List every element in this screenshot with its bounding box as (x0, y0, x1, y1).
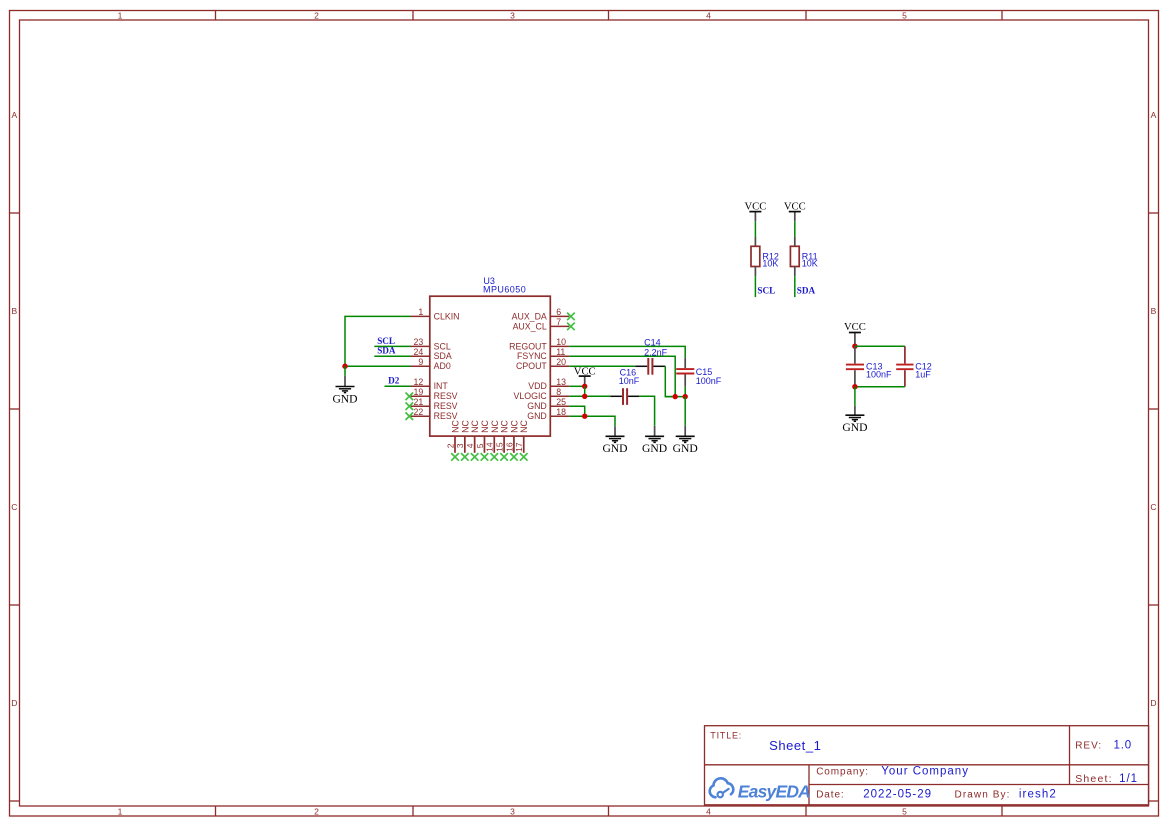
svg-text:10nF: 10nF (619, 376, 640, 386)
no-connect flag pin 6 (567, 313, 575, 321)
svg-text:1: 1 (418, 307, 423, 317)
resistor R12 10K (751, 237, 779, 277)
svg-text:2: 2 (314, 807, 319, 817)
svg-text:3: 3 (510, 11, 515, 21)
U3 pin 7 (AUX_CL) right (513, 317, 570, 331)
junction C15/GND (683, 394, 688, 399)
no-connect flag pin 16 (510, 453, 518, 461)
svg-text:NC: NC (451, 420, 461, 433)
svg-text:10K: 10K (762, 259, 778, 269)
U3 pin 9 (AD0) left (411, 357, 451, 371)
capacitor C15 100nF (676, 358, 722, 387)
svg-text:REGOUT: REGOUT (509, 341, 547, 351)
IC U3 MPU6050 (411, 276, 570, 461)
svg-text:B: B (11, 306, 17, 316)
no-connect flag pin 15 (500, 453, 508, 461)
svg-text:SDA: SDA (377, 346, 396, 356)
wire R12 to SCL (754, 276, 756, 297)
svg-text:19: 19 (414, 387, 424, 397)
svg-text:MPU6050: MPU6050 (483, 284, 526, 294)
svg-text:5: 5 (902, 11, 907, 21)
svg-text:Your Company: Your Company (881, 766, 969, 778)
svg-text:Sheet:: Sheet: (1075, 773, 1113, 785)
power VCC (above R11) (784, 201, 806, 221)
svg-text:2: 2 (445, 443, 455, 448)
wire SDA net (374, 355, 410, 357)
svg-text:1: 1 (118, 11, 123, 21)
svg-text:5: 5 (902, 807, 907, 817)
svg-text:10K: 10K (802, 259, 818, 269)
U3 pin 3 (NC) bottom (455, 420, 470, 453)
wire C16 to ground corner (639, 396, 655, 426)
svg-text:17: 17 (514, 442, 524, 452)
svg-text:1: 1 (118, 807, 123, 817)
wire C12 bottom to C13 bottom (855, 386, 905, 388)
svg-text:12: 12 (414, 377, 424, 387)
svg-text:NC: NC (490, 420, 500, 433)
wire AD0 net (pin 9) (345, 365, 411, 367)
svg-text:8: 8 (556, 387, 561, 397)
svg-text:7: 7 (556, 317, 561, 327)
wire VDD to VLOGIC (584, 386, 586, 396)
U3 pin 4 (NC) bottom (465, 420, 480, 453)
wire C13 bottom to ground (854, 387, 856, 406)
wire CLKIN net (pin 1 to corner) (345, 316, 411, 366)
power VCC (above VDD) (574, 367, 596, 387)
U3 pin 5 (NC) bottom (475, 420, 490, 453)
svg-text:9: 9 (418, 357, 423, 367)
wire FSYNC net (pin 11) (569, 356, 675, 396)
svg-text:GND: GND (673, 442, 698, 455)
title block (705, 726, 1149, 805)
wire junction row (665, 396, 685, 398)
wire junction to ground (right) (684, 397, 686, 426)
svg-text:NC: NC (460, 420, 470, 433)
svg-text:RESV: RESV (434, 411, 458, 421)
U3 pin 14 (NC) bottom (485, 420, 500, 453)
svg-text:VCC: VCC (745, 201, 767, 212)
svg-text:NC: NC (480, 420, 490, 433)
svg-text:A: A (1151, 110, 1157, 120)
junction VDD/VCC (582, 384, 587, 389)
svg-text:16: 16 (504, 442, 514, 452)
svg-text:SCL: SCL (434, 341, 451, 351)
no-connect flag pin 17 (520, 453, 528, 461)
svg-text:iresh2: iresh2 (1019, 789, 1057, 801)
no-connect flag pin 14 (490, 453, 498, 461)
svg-text:25: 25 (556, 397, 566, 407)
U3 pin 2 (NC) bottom (445, 420, 460, 453)
no-connect flag pin 22 (406, 412, 414, 420)
svg-text:5: 5 (475, 443, 485, 448)
wire GND net pin 25 (569, 406, 585, 416)
svg-text:SDA: SDA (797, 286, 816, 296)
svg-text:3: 3 (455, 443, 465, 448)
svg-text:VCC: VCC (844, 322, 866, 333)
svg-text:GND: GND (602, 442, 627, 455)
U3 pin 13 (VDD) right (528, 377, 569, 391)
svg-text:NC: NC (509, 420, 519, 433)
svg-text:NC: NC (519, 420, 529, 433)
U3 pin 24 (SDA) left (411, 347, 452, 361)
capacitor C12 1uF (896, 346, 932, 387)
ground GND (below C13) (842, 406, 867, 434)
ground GND (below pin 18) (602, 426, 627, 455)
svg-text:13: 13 (556, 377, 566, 387)
svg-text:SCL: SCL (377, 336, 395, 346)
svg-text:CLKIN: CLKIN (434, 311, 460, 321)
svg-text:21: 21 (414, 397, 424, 407)
U3 pin 19 (RESV) left (411, 387, 458, 401)
svg-text:NC: NC (470, 420, 480, 433)
wire VCC to R11 (794, 221, 796, 236)
svg-text:4: 4 (706, 807, 711, 817)
ground GND (left) (332, 376, 357, 405)
power VCC (above C13) (844, 322, 866, 346)
U3 pin 21 (RESV) left (411, 397, 458, 411)
svg-text:TITLE:: TITLE: (710, 731, 742, 741)
svg-text:RESV: RESV (434, 401, 458, 411)
junction VCC/C13/C12 top (852, 344, 857, 349)
wire C15 to junction (684, 387, 686, 397)
svg-text:AUX_CL: AUX_CL (513, 321, 547, 331)
svg-text:1/1: 1/1 (1119, 773, 1138, 785)
wire CPOUT net (pin 20 to C14) (569, 365, 635, 367)
svg-text:10: 10 (556, 337, 566, 347)
svg-text:AUX_DA: AUX_DA (512, 311, 547, 321)
wire SCL net (374, 345, 410, 347)
svg-text:Drawn By:: Drawn By: (955, 790, 1011, 801)
U3 body (430, 296, 551, 436)
svg-text:GND: GND (527, 401, 547, 411)
power VCC (above R12) (745, 201, 767, 221)
svg-text:VLOGIC: VLOGIC (514, 391, 548, 401)
svg-text:6: 6 (556, 307, 561, 317)
svg-text:C: C (11, 502, 17, 512)
svg-text:14: 14 (485, 442, 495, 452)
svg-text:Date:: Date: (816, 790, 844, 801)
svg-text:2.2nF: 2.2nF (644, 347, 668, 357)
svg-text:VCC: VCC (574, 367, 596, 378)
wire VLOGIC net (pin 8 to C16) (569, 395, 610, 397)
junction VLOGIC/VCC (582, 394, 587, 399)
capacitor C13 100nF (846, 346, 892, 387)
wire to ground (344, 366, 346, 376)
svg-text:REV:: REV: (1075, 741, 1102, 752)
svg-text:4: 4 (465, 443, 475, 448)
svg-text:11: 11 (556, 347, 565, 357)
no-connect flag pin 3 (461, 453, 469, 461)
wire GND net pin 18 (569, 416, 615, 426)
svg-text:20: 20 (556, 357, 566, 367)
svg-text:VCC: VCC (784, 201, 806, 212)
svg-text:23: 23 (414, 337, 424, 347)
U3 pin 10 (REGOUT) right (509, 337, 569, 351)
svg-text:2: 2 (314, 11, 319, 21)
svg-text:2022-05-29: 2022-05-29 (863, 789, 932, 801)
svg-text:18: 18 (556, 407, 566, 417)
wire R11 to SDA (794, 276, 796, 297)
capacitor C16 10nF (610, 368, 639, 405)
EasyEDA logo (710, 778, 810, 801)
svg-text:GND: GND (642, 442, 667, 455)
svg-text:NC: NC (500, 420, 510, 433)
U3 pin 12 (INT) left (411, 377, 449, 391)
no-connect flag pin 2 (451, 453, 459, 461)
resistor R11 10K (790, 237, 817, 277)
ground GND (middle) (642, 426, 667, 455)
svg-text:GND: GND (332, 392, 357, 405)
svg-text:RESV: RESV (434, 391, 458, 401)
svg-text:D: D (1150, 698, 1156, 708)
svg-text:EasyEDA: EasyEDA (738, 781, 810, 801)
svg-text:B: B (1151, 306, 1157, 316)
svg-text:3: 3 (510, 807, 515, 817)
no-connect flag pin 21 (406, 402, 414, 410)
U3 pin 18 (GND) right (527, 407, 569, 421)
svg-text:SDA: SDA (434, 351, 452, 361)
wire C13 top to C12 top (855, 345, 905, 347)
wire VDD net (pin 13) (569, 385, 585, 387)
wire REGOUT net (pin 10 to C15) (569, 346, 685, 357)
svg-text:VDD: VDD (528, 381, 547, 391)
junction C13/C12 bottom (852, 384, 857, 389)
svg-text:INT: INT (434, 381, 449, 391)
U3 pin 20 (CPOUT) right (516, 357, 569, 371)
svg-text:GND: GND (842, 421, 867, 434)
wire D2 net (385, 385, 411, 387)
U3 pin 17 (NC) bottom (514, 420, 529, 453)
svg-text:100nF: 100nF (696, 376, 722, 386)
junction pin25/pin18 (582, 414, 587, 419)
svg-text:FSYNC: FSYNC (517, 351, 547, 361)
svg-text:Sheet_1: Sheet_1 (769, 738, 821, 753)
U3 pin 16 (NC) bottom (504, 420, 519, 453)
wire C14 to junction (665, 366, 675, 396)
wire VCC to R12 (754, 221, 756, 236)
svg-text:Company:: Company: (816, 767, 869, 778)
junction CLKIN/AD0/GND (342, 364, 347, 369)
U3 pin 1 (CLKIN) left (411, 307, 460, 321)
svg-text:15: 15 (495, 442, 505, 452)
U3 pin 23 (SCL) left (411, 337, 451, 351)
svg-text:1.0: 1.0 (1114, 740, 1132, 752)
U3 pin 25 (GND) right (527, 397, 569, 411)
svg-text:D2: D2 (388, 376, 400, 386)
capacitor C14 2.2nF (635, 338, 667, 375)
svg-text:AD0: AD0 (434, 361, 451, 371)
svg-text:GND: GND (527, 411, 547, 421)
svg-text:1uF: 1uF (915, 369, 931, 379)
svg-text:22: 22 (414, 407, 424, 417)
no-connect flag pin 4 (471, 453, 479, 461)
svg-text:100nF: 100nF (866, 369, 892, 379)
ground GND (right) (673, 426, 698, 455)
svg-text:C: C (1150, 502, 1156, 512)
U3 pin 15 (NC) bottom (495, 420, 510, 453)
svg-text:A: A (11, 110, 17, 120)
svg-text:CPOUT: CPOUT (516, 361, 547, 371)
svg-text:D: D (11, 698, 17, 708)
U3 pin 22 (RESV) left (411, 407, 458, 421)
svg-text:SCL: SCL (757, 286, 775, 296)
U3 pin 8 (VLOGIC) right (514, 387, 570, 401)
svg-text:24: 24 (414, 347, 424, 357)
no-connect flag pin 5 (481, 453, 489, 461)
U3 pin 6 (AUX_DA) right (512, 307, 570, 321)
U3 pin 11 (FSYNC) right (517, 347, 569, 361)
svg-text:4: 4 (706, 11, 711, 21)
no-connect flag pin 19 (406, 393, 414, 401)
svg-text:C14: C14 (644, 338, 661, 348)
junction FSYNC/C14 (673, 394, 678, 399)
no-connect flag pin 7 (567, 323, 575, 331)
